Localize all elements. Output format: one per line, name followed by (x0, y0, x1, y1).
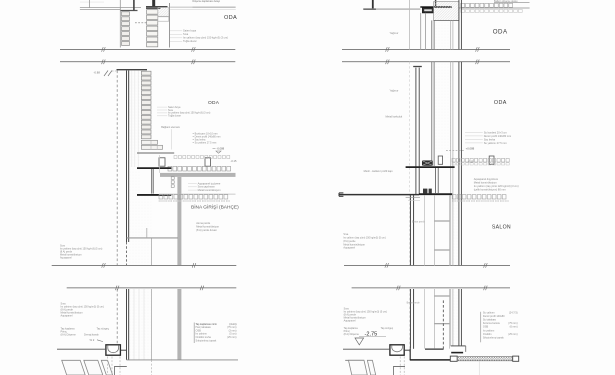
outer face line top-right (409, 0, 411, 49)
door fixing bolts (171, 177, 174, 180)
soffit top line (159, 193, 236, 195)
svg-text:Isı yalıtımı: Isı yalıtımı (483, 329, 495, 332)
paving top edge line right (345, 359, 364, 361)
svg-text:Sıva: Sıva (183, 32, 189, 36)
railing post stem (372, 0, 374, 8)
drainage channel right (390, 345, 404, 355)
elevation +0.088 leader (446, 150, 464, 152)
svg-text:Aquapanel: Aquapanel (343, 247, 355, 250)
svg-text:Isı yalıtımı (taş yünü 150 kg/: Isı yalıtımı (taş yünü 150 kg/m3) (3 cm) (183, 36, 228, 40)
svg-text:Drenaj kanalı: Drenaj kanalı (84, 333, 99, 336)
wall lines mid-right inner dark (431, 62, 433, 166)
svg-text:Saten boya: Saten boya (183, 29, 197, 33)
svg-text:Ondülin: Ondülin (483, 333, 492, 336)
floor slab hatch top-left (158, 7, 169, 16)
grid axis dashed right bottom (408, 289, 410, 352)
svg-text:Taş süzgeç: Taş süzgeç (381, 327, 394, 330)
svg-text:(24.7/3): (24.7/3) (509, 312, 518, 315)
foundation step lines (115, 367, 127, 375)
svg-text:Sıkıştırılmış toprak: Sıkıştırılmış toprak (196, 339, 217, 342)
wall right edge dark middle (458, 62, 460, 266)
svg-text:(25 mm): (25 mm) (227, 336, 236, 339)
slab bottom edge line (434, 19, 459, 21)
svg-text:Bağlantı elemanı: Bağlantı elemanı (161, 126, 180, 129)
inner face vertical below ceiling (151, 239, 153, 266)
break line low-right y288 (352, 287, 510, 289)
elevation mark tick (104, 71, 108, 77)
inner face line above band (159, 155, 161, 173)
hidden dashed line in wall (442, 300, 444, 348)
interior ceiling line 2 (170, 9, 236, 11)
door frame head lines (420, 13, 422, 50)
svg-text:Su yalıtımı 27.5 mm: Su yalıtımı 27.5 mm (195, 141, 217, 144)
balcony floor line (363, 8, 420, 10)
canopy eave line (339, 194, 419, 196)
cavity wall tie dashed (135, 22, 147, 24)
svg-text:Demir profil 140x80 mm: Demir profil 140x80 mm (484, 134, 512, 138)
svg-text:Yağmur: Yağmur (390, 89, 399, 93)
wall dotted fill top-right (434, 20, 451, 49)
floor tile row 1 (461, 3, 465, 7)
grid axis dashed right (408, 62, 410, 265)
canopy left end fork (339, 192, 343, 194)
svg-text:Su tabakası: Su tabakası (483, 319, 497, 322)
svg-text:Su bordesi 20+3 cm: Su bordesi 20+3 cm (484, 130, 507, 134)
material list right leaders (465, 131, 483, 133)
dashed verticals under drain right (399, 357, 401, 375)
svg-text:(75 mm): (75 mm) (508, 322, 517, 325)
break line lower-left y62 (60, 61, 235, 63)
svg-text:Aquapanel dışyüzere: Aquapanel dışyüzere (474, 177, 499, 181)
salon floor screed row (452, 158, 455, 162)
basement floor line (127, 359, 239, 361)
foundation dark line to grate (410, 359, 451, 361)
balcony ceiling line upper (80, 7, 141, 9)
window frame head cap (413, 66, 422, 68)
svg-text:Taş süzgeç: Taş süzgeç (97, 327, 110, 330)
foundation step lines right (394, 367, 406, 375)
glass pane line bottom (424, 289, 426, 349)
floor tile row 2 (461, 9, 465, 12)
paving slab 2 (84, 360, 103, 375)
svg-text:Sac levha: Sac levha (484, 137, 496, 141)
steel T-profile foot line (146, 7, 161, 9)
wall core dotted fill middle (130, 71, 142, 266)
garden ground line (57, 348, 105, 350)
break line upper-right y49 (342, 48, 510, 50)
wall lines top-right inner dark (431, 20, 433, 49)
annotation block top-left leaders (170, 30, 182, 32)
annotation aquapanel leaders (188, 183, 197, 185)
break line low-left y288 (67, 287, 237, 289)
railing post foot plate (364, 8, 376, 10)
left vertical edge of brick strip A (119, 0, 121, 48)
svg-text:Mesh - katlanır profil kapı: Mesh - katlanır profil kapı (364, 169, 393, 173)
grate end box left (450, 356, 457, 361)
wall dotted fill mid-right (434, 62, 451, 159)
stud ladder rails bottom (433, 289, 435, 349)
svg-text:(8 A) Döşeme: (8 A) Döşeme (344, 333, 360, 336)
floor screed band top-left (158, 17, 169, 21)
svg-text:% 2: % 2 (90, 338, 95, 342)
drainage channel left (106, 345, 121, 355)
stud ladder rungs middle (434, 220, 449, 222)
outer face dashed line bottom (116, 289, 118, 352)
steel I-beam web left (151, 169, 153, 194)
wall lines bottom-right inner light (450, 289, 452, 346)
brick strip A cap (120, 10, 137, 12)
wall lines top-right inner light (450, 20, 452, 49)
slab edge dark line (133, 0, 135, 10)
svg-text:(8 A) perde duvarı: (8 A) perde duvarı (196, 228, 217, 232)
break line lower-right y62 (342, 61, 510, 63)
floor slab hatch top-right (434, 2, 459, 21)
annotation underline top-left (193, 6, 236, 8)
frame foot thin lines (406, 196, 420, 198)
wall core faint lines (131, 71, 133, 168)
svg-text:ODA: ODA (493, 29, 508, 36)
svg-text:(çelik konstrüksiyon) 80 mm: (çelik konstrüksiyon) 80 mm (474, 188, 506, 192)
pedestal spacer block right B (489, 156, 494, 164)
balcony ceiling line lower (80, 9, 120, 11)
steel I-beam bottom flange right (419, 193, 452, 195)
entrance ceiling line (127, 237, 178, 239)
steel I-beam web right (434, 168, 436, 193)
break line upper-left y49 (60, 48, 235, 50)
wall right edge dark bottom (458, 289, 460, 346)
entrance door gray bar bottom (177, 289, 181, 360)
svg-text:Döşeme kaplaması detayı: Döşeme kaplaması detayı (193, 0, 221, 3)
svg-text:(8 A) Döşeme: (8 A) Döşeme (61, 333, 77, 336)
steel I-beam top flange left (137, 167, 171, 169)
steel T-profile stem (152, 0, 155, 6)
svg-text:Beton perde: Beton perde (412, 220, 426, 223)
foundation edge thick (451, 352, 463, 354)
svg-text:OSB: OSB (483, 326, 489, 329)
brick strip A cells (122, 12, 130, 16)
annotation underline top-right (494, 1, 530, 3)
svg-text:-0.088: -0.088 (217, 146, 225, 150)
glass pane line middle (424, 195, 426, 265)
dashed vertical below basement (151, 360, 153, 375)
wall stub above ceiling (89, 0, 91, 8)
entrance lintel gray band (160, 173, 236, 177)
drain step to frame (404, 349, 409, 351)
paving slab 3 (101, 360, 112, 375)
material table bracket right (480, 312, 482, 343)
frame stem above sill (435, 0, 437, 7)
wall lines mid-right inner light (450, 62, 452, 266)
svg-text:Isı yalıtımı (taş yünü 120 kg/: Isı yalıtımı (taş yünü 120 kg/m3) (3 cm) (474, 184, 519, 188)
wall core faint lines bottom (133, 289, 135, 360)
break line mid-right y265 (344, 264, 510, 266)
paving slab right 2 (367, 360, 375, 375)
window frame dark double line (126, 71, 128, 243)
steel I-beam bottom flange left (137, 194, 171, 196)
roof faint line (80, 1, 104, 3)
floor tile square row (168, 166, 172, 171)
break line mid-left y265 (52, 264, 237, 266)
window frame dark double line bottom (126, 289, 128, 360)
floor cap line (137, 152, 174, 154)
svg-text:Yağmur: Yağmur (390, 31, 399, 35)
lower glazing frame double line bottom (409, 289, 411, 349)
dashed verticals under drain (107, 357, 109, 375)
salon soffit tile row (452, 195, 456, 199)
svg-text:-0.15: -0.15 (468, 159, 474, 163)
svg-text:Aquapanel: Aquapanel (60, 256, 72, 259)
floor screed dash row (174, 156, 177, 159)
grate end box right (513, 356, 519, 361)
svg-text:(6 mm): (6 mm) (510, 326, 518, 329)
wall base step vertical (465, 346, 467, 352)
wall base line (451, 345, 466, 347)
brick step row 2 (141, 145, 162, 149)
garden ground line right (343, 348, 389, 350)
material list middle-left ticks (193, 133, 194, 135)
wall core dotted fill lower-middle (141, 196, 151, 265)
interior ceiling line to room (170, 6, 236, 8)
frame bottom member (425, 348, 444, 350)
elevation dashed leader (112, 70, 117, 72)
beam connection bolt plates (423, 189, 427, 194)
door head vertical (146, 228, 148, 238)
pedestal spacer block A (159, 158, 165, 166)
svg-text:Koruma betonu: Koruma betonu (483, 322, 501, 325)
light vertical under grate (478, 361, 480, 375)
svg-text:Metal konstrüksiyon: Metal konstrüksiyon (474, 181, 497, 185)
brick strip middle cells (141, 71, 151, 75)
interior floor line right (459, 7, 530, 9)
svg-text:Aquapanel: Aquapanel (61, 315, 73, 318)
outer face dashed line middle (116, 71, 118, 266)
interior wall face vertical (169, 3, 171, 48)
stud ladder rails middle (433, 195, 435, 265)
svg-text:Su yalıtımı 27.5 mm: Su yalıtımı 27.5 mm (484, 141, 507, 145)
svg-text:Tuğla duvar: Tuğla duvar (183, 39, 197, 43)
inner face vertical bottom (151, 289, 153, 360)
svg-text:-0.88: -0.88 (94, 71, 101, 75)
elevation triangle marker (355, 338, 364, 345)
steel T-profile base plate (146, 6, 168, 8)
entrance door gray bar (177, 177, 181, 266)
salon floor lower marks row (452, 163, 455, 165)
pedestal spacer block B (205, 158, 211, 166)
svg-text:+0.088: +0.088 (466, 147, 475, 151)
door sill profile dark box (422, 8, 433, 13)
svg-text:Balkon döşeme detayı: Balkon döşeme detayı (494, 0, 518, 3)
svg-text:Tuğla duvar: Tuğla duvar (168, 115, 181, 118)
svg-text:SALON: SALON (492, 225, 511, 231)
salon floor slab thick line (406, 166, 455, 168)
wall dotted fill right strip bottom (453, 289, 459, 346)
svg-text:Aquapanel: Aquapanel (344, 320, 356, 323)
brick step row 1 (141, 140, 157, 144)
svg-text:ODA: ODA (224, 15, 237, 21)
svg-text:BİNA GİRİŞİ (BAHÇE): BİNA GİRİŞİ (BAHÇE) (191, 203, 239, 210)
svg-text:(25 mm): (25 mm) (508, 333, 517, 336)
svg-text:-0.15: -0.15 (231, 159, 237, 163)
svg-text:Su yalıtımı: Su yalıtımı (483, 312, 495, 315)
elevation -0.088 level mark (216, 151, 221, 153)
grate crosshatch bar (457, 357, 513, 361)
tall glazing frame double line (415, 68, 417, 195)
svg-text:Beton perde: Beton perde (407, 302, 421, 305)
pedestal spacer block right A (438, 156, 442, 164)
paving slab 1 (62, 360, 85, 375)
wall right edge dark top (458, 0, 460, 49)
salon soffit lower marks (452, 200, 455, 202)
parapet cap line (117, 69, 148, 71)
frame continuation to ground (409, 349, 411, 360)
sill profile dark box with X (422, 161, 432, 166)
svg-text:Asma perde: Asma perde (196, 221, 211, 225)
soffit lower marks left (159, 200, 162, 202)
brick strip B cells (147, 10, 158, 14)
svg-text:Metal konstrüksiyon: Metal konstrüksiyon (196, 225, 219, 229)
frame dashed continuation (126, 242, 128, 265)
svg-text:ODA: ODA (494, 100, 507, 106)
svg-text:Demir profil 140x80: Demir profil 140x80 (483, 315, 505, 318)
lower glazing frame double line (409, 195, 411, 265)
svg-text:Metal korkuluk: Metal korkuluk (386, 115, 403, 119)
stud ladder rungs bottom (434, 295, 449, 297)
soffit tile row (159, 195, 163, 199)
annotation block middle-left leaders (157, 106, 167, 108)
material table bracket left (193, 323, 195, 344)
door sill top dark line (420, 6, 452, 8)
svg-text:Metal konstrüksiyon: Metal konstrüksiyon (198, 188, 221, 192)
svg-text:Sıkıştırılmış toprak: Sıkıştırılmış toprak (483, 336, 504, 339)
wall core dotted fill bottom (130, 289, 152, 360)
drain step to wall (121, 349, 127, 351)
connection element leader (171, 129, 173, 149)
paving slab right 1 (349, 360, 368, 375)
svg-text:ODA: ODA (208, 100, 220, 106)
wall dotted fill right strip middle (453, 195, 459, 265)
